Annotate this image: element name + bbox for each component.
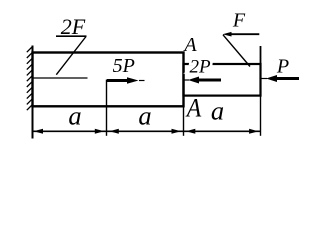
dim arrow seg3 right: [249, 129, 259, 134]
svg-text:2F: 2F: [61, 14, 86, 39]
leader line 2F: [56, 37, 86, 75]
force 5P thin tail: [139, 80, 145, 82]
dim arrow seg2 right: [172, 129, 182, 134]
arrowhead of F underline: [223, 32, 232, 37]
extension line at right end x=260.5: [260, 95, 262, 136]
svg-text:a: a: [138, 100, 151, 130]
extension line at x=106 (under 5P): [106, 80, 108, 136]
svg-text:P: P: [276, 56, 289, 78]
force 5P arrowhead: [127, 77, 139, 84]
small bar section (area F): [184, 64, 261, 96]
underline of F: [228, 33, 259, 35]
large bar section (area 2F): [33, 53, 184, 107]
dimension line: [33, 130, 261, 132]
dim arrow seg1 right: [95, 129, 105, 134]
force P thin lead: [262, 78, 268, 80]
force 2P arrow shaft: [198, 79, 221, 82]
extension line at step x=183.5: [183, 107, 185, 136]
svg-text:A: A: [182, 34, 197, 56]
force P arrow shaft: [276, 77, 299, 80]
force 5P arrow shaft: [107, 79, 128, 82]
force P arrowhead: [266, 75, 277, 82]
dim arrow seg1 left: [34, 129, 44, 134]
fixed wall line: [32, 46, 34, 139]
dim arrow seg2 left: [109, 129, 119, 134]
force 2P thin lead: [185, 79, 190, 81]
dim arrow seg3 left: [186, 129, 196, 134]
right end line extension above small bar: [260, 46, 262, 64]
svg-text:2P: 2P: [189, 57, 211, 78]
leader line F: [223, 35, 250, 67]
underline of 2F: [56, 35, 87, 37]
wall hatching: [27, 47, 33, 111]
svg-text:a: a: [68, 100, 81, 130]
force 2P arrowhead: [188, 77, 199, 84]
svg-text:5P: 5P: [113, 55, 135, 77]
svg-text:a: a: [211, 96, 224, 126]
svg-text:A: A: [185, 93, 201, 122]
centerline of bar: [34, 77, 88, 79]
svg-text:F: F: [232, 10, 246, 32]
